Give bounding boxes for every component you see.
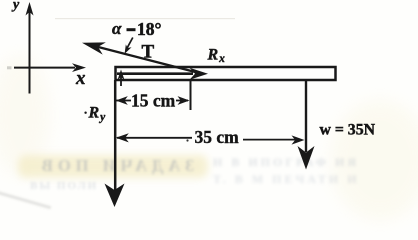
stray dot before 35 cm label [186,139,188,141]
cream patch left [0,55,50,175]
15cm right extension line [190,80,192,110]
svg-text:w = 35N: w = 35N [320,122,376,139]
vector T line [90,45,203,74]
vector w shaft [305,80,307,152]
vector Rx arrowhead [190,68,209,80]
bleed-through mirrored bold text [14,156,194,176]
35cm dimension left segment [117,137,192,139]
bleed-through faint text right row1 [213,155,359,170]
bleed-through faint text right row2 [213,172,360,187]
small up arrow at beam left end [120,74,122,86]
svg-text:T: T [142,42,155,63]
page curl shadow bottom-left [0,190,51,209]
svg-text:α: α [112,19,122,38]
svg-text:35 cm: 35 cm [195,127,240,147]
x-axis [14,67,75,69]
vector Rx shaft [117,72,193,75]
beam [116,67,336,80]
15cm dimension left arrow [116,100,131,102]
35cm dimension right segment [243,139,297,141]
svg-text:15 cm: 15 cm [131,91,176,111]
dot before Ry label [84,112,86,114]
svg-text:x: x [75,68,86,89]
equals bar of alpha label [127,28,136,31]
y-axis [29,6,31,94]
yellow highlight band behind bleed text [18,155,208,178]
faint scan streak top [55,18,235,19]
ink smudge left of x-axis [7,66,12,69]
15cm dimension right arrow [176,100,188,102]
bleed-through faint text left row2 [30,180,98,192]
x-axis arrowhead [72,63,86,72]
svg-text:Ry: Ry [88,105,107,124]
svg-text:y: y [11,0,20,13]
vector w arrowhead [298,146,315,170]
vector T arrowhead [80,37,105,55]
svg-text:Rx: Rx [207,47,226,66]
leader arrow from alpha label to T line [126,38,133,51]
cream patch right [330,100,418,220]
svg-text:18°: 18° [137,19,162,39]
y-axis arrowhead [26,2,34,16]
Ry arrowhead [105,184,125,208]
wire: Ry extension line / Ry shaft [114,80,117,190]
